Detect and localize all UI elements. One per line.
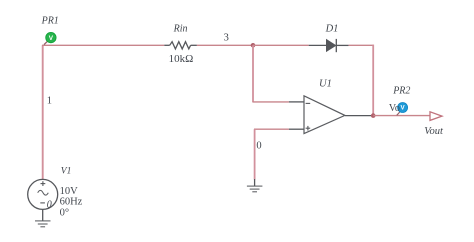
svg-text:PR1: PR1 <box>41 15 59 26</box>
op-amp U1 pin minus lead <box>289 101 304 103</box>
svg-text:10kΩ: 10kΩ <box>169 53 194 65</box>
ac source V1 <box>28 179 58 209</box>
wire inverting input branch <box>252 45 289 102</box>
svg-text:60Hz: 60Hz <box>60 197 83 208</box>
node 3 label <box>224 32 229 43</box>
probe PR2 net name Vo <box>389 103 400 114</box>
svg-text:0: 0 <box>47 199 52 210</box>
resistor Rin value 10kΩ <box>169 53 194 65</box>
svg-text:3: 3 <box>224 32 229 43</box>
svg-text:V: V <box>49 35 54 42</box>
node 1 label <box>47 95 52 106</box>
node 0 label at V1 <box>47 199 52 210</box>
op-amp U1 output pin <box>345 115 373 117</box>
wire net3 to output corner (D1 cathode to vertical) <box>349 45 374 116</box>
probe PR1 <box>44 32 56 44</box>
probe PR2 label <box>392 86 410 97</box>
wire net1 vertical (V1 top to corner) <box>42 45 44 179</box>
svg-text:D1: D1 <box>325 23 339 34</box>
junction node 3 <box>251 43 256 48</box>
resistor Rin label <box>173 23 188 34</box>
svg-text:PR2: PR2 <box>392 86 410 97</box>
node 0 label <box>256 141 261 152</box>
svg-text:0°: 0° <box>60 207 69 218</box>
op-amp U1 <box>304 96 345 134</box>
ac source V1 label <box>61 167 72 177</box>
svg-text:Vout: Vout <box>424 126 444 137</box>
svg-text:10V: 10V <box>60 186 79 197</box>
svg-text:U1: U1 <box>319 79 332 90</box>
resistor Rin <box>164 42 197 49</box>
wire net3 (Rin right to junction) <box>197 44 253 46</box>
wire output net <box>373 115 430 117</box>
ac source V1 value 0 deg <box>60 207 69 218</box>
diode D1 <box>309 39 349 52</box>
wire net3 (junction to D1 anode) <box>253 44 309 46</box>
ac source V1 value 60Hz <box>60 197 83 208</box>
ground (op-amp plus input) <box>247 179 263 192</box>
wire net1 horizontal (corner to Rin left) <box>42 44 164 46</box>
ground (V1 negative) <box>35 209 51 226</box>
diode D1 label <box>325 23 339 34</box>
svg-text:0: 0 <box>256 141 261 152</box>
op-amp U1 pin plus lead <box>289 128 304 130</box>
svg-text:V1: V1 <box>61 167 72 177</box>
wire non-inverting input branch <box>254 129 289 179</box>
svg-text:Vo: Vo <box>389 103 400 114</box>
Vout label <box>424 126 444 137</box>
probe PR1 label <box>41 15 59 26</box>
svg-text:Rin: Rin <box>173 23 188 34</box>
svg-text:1: 1 <box>47 95 52 106</box>
output arrow connector Vout <box>430 112 442 121</box>
junction output node <box>371 113 376 118</box>
op-amp U1 label <box>319 79 332 90</box>
probe PR2 <box>397 103 408 116</box>
ac source V1 value 10V <box>60 186 79 197</box>
